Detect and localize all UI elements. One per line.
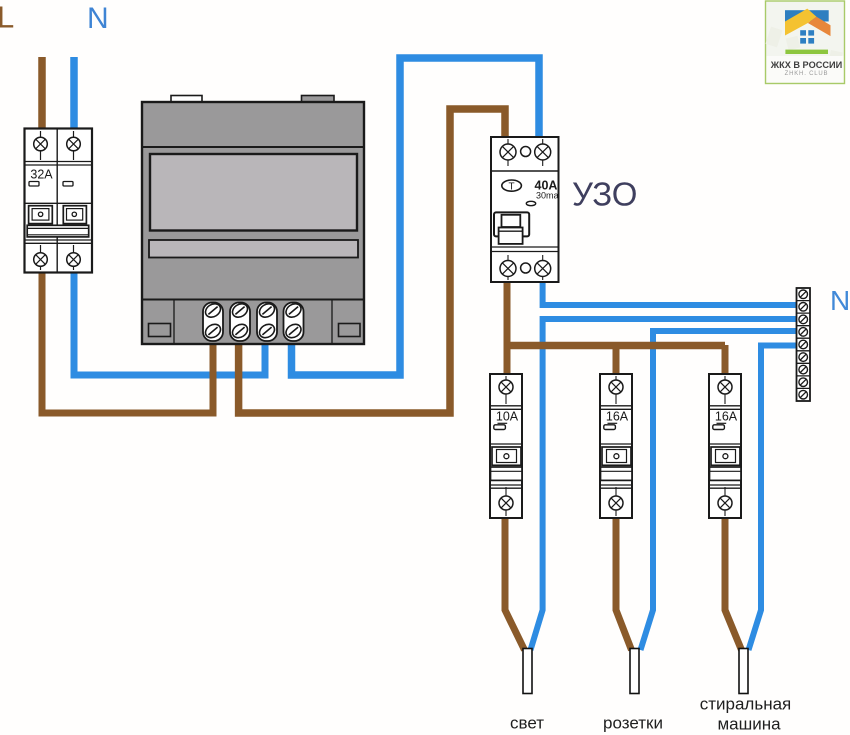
- terminal screw QF1 top-right: [67, 131, 81, 160]
- meter body: [142, 102, 364, 344]
- svg-text:30ma: 30ma: [536, 191, 559, 201]
- meter corner block right: [339, 324, 361, 337]
- meter terminal column 3: [257, 301, 277, 341]
- wire L drop to breaker SF3: [722, 345, 729, 375]
- svg-text:ЖКХ В РОССИИ: ЖКХ В РОССИИ: [770, 60, 842, 70]
- wire N from RCD bottom to N bus: [543, 280, 797, 305]
- wire L breaker SF3 output to cable 3: [725, 517, 742, 650]
- indicator window SF3: [717, 422, 727, 424]
- bus terminal screw 6: [799, 353, 808, 362]
- vent circle top: [521, 147, 531, 157]
- wire L distribution rail: [504, 342, 726, 350]
- terminal screw QF1 top-left: [34, 131, 48, 160]
- bus terminal screw 2: [799, 303, 808, 312]
- bus terminal screw 1: [799, 290, 808, 299]
- svg-text:свет: свет: [510, 714, 544, 733]
- meter terminal column 2: [230, 301, 250, 341]
- svg-text:32A: 32A: [30, 168, 53, 182]
- terminal screw SF2 bottom: [609, 487, 623, 516]
- terminal screw RCD bottom-right: [535, 255, 551, 280]
- toggle SF1: [492, 447, 521, 465]
- logo house roof orange band: [808, 17, 831, 36]
- toggle left pole: [29, 206, 53, 224]
- svg-text:ZHKH. CLUB: ZHKH. CLUB: [785, 71, 829, 77]
- test button oval with T: [502, 180, 522, 192]
- bus terminal screw 5: [799, 340, 808, 349]
- svg-text:16A: 16A: [606, 410, 629, 424]
- wire L RCD output down to breaker SF1: [504, 280, 511, 375]
- N bus bar: [797, 288, 811, 401]
- wire N bus to circuit 2 (sockets): [641, 331, 798, 650]
- small indicator ellipse: [526, 201, 535, 205]
- terminal screw RCD bottom-left: [500, 255, 516, 280]
- wire N feed from supply: [70, 57, 78, 131]
- wire L breaker SF2 output to cable 2: [616, 517, 632, 650]
- terminal screw SF1 top: [499, 376, 513, 404]
- terminal screw RCD top-left: [500, 139, 516, 166]
- terminal screw QF1 bottom-left: [34, 245, 48, 270]
- svg-text:N: N: [87, 2, 109, 35]
- indicator window left pole: [29, 182, 39, 187]
- cable to washing machine load: [739, 649, 748, 694]
- meter corner block left: [149, 324, 171, 337]
- wire N bus to circuit 3 (washer): [749, 346, 798, 651]
- svg-text:T: T: [509, 181, 515, 192]
- toggle right pole: [63, 206, 86, 224]
- svg-text:розетки: розетки: [603, 714, 663, 733]
- wire L breaker SF1 output to cable 1: [505, 517, 525, 650]
- handle bar SF3: [710, 467, 742, 480]
- handle bar SF1: [491, 467, 523, 480]
- terminal screw SF1 bottom: [499, 487, 513, 516]
- meter name strip: [149, 240, 358, 258]
- svg-text:16A: 16A: [715, 410, 738, 424]
- handle bar SF2: [601, 467, 633, 480]
- cable to light load: [523, 649, 532, 694]
- bus terminal screw 9: [799, 390, 808, 399]
- RCD QD1 40A 30ma: [491, 137, 559, 282]
- bus terminal screw 3: [799, 315, 808, 324]
- svg-text:N: N: [830, 285, 850, 316]
- WIRES-BROWN: [42, 57, 742, 650]
- wire N from breaker QF1 to meter terminal 3: [74, 268, 265, 375]
- logo house roof blue band: [785, 10, 829, 21]
- breaker SF1 10A single-pole: [490, 374, 522, 518]
- handle tie bar: [27, 225, 88, 237]
- cable to sockets load: [630, 649, 639, 694]
- terminal screw SF2 top: [609, 376, 623, 404]
- terminal screw RCD top-right: [535, 139, 551, 166]
- svg-text:L: L: [0, 0, 14, 35]
- breaker SF3 16A single-pole: [709, 374, 741, 518]
- bus terminal screw 4: [799, 328, 808, 337]
- RCD toggle handle: [494, 212, 529, 244]
- logo house window: [800, 30, 814, 43]
- meter terminal column 4: [283, 301, 303, 341]
- terminal screw QF1 bottom-right: [67, 245, 81, 270]
- WIRES-BLUE: [74, 57, 797, 650]
- logo house base green bar: [785, 50, 828, 54]
- svg-text:стиральная: стиральная: [700, 695, 792, 714]
- wire L drop to breaker SF2: [613, 345, 620, 375]
- meter display screen: [150, 154, 357, 231]
- svg-text:10A: 10A: [496, 410, 519, 424]
- breaker SF2 16A single-pole: [600, 374, 632, 518]
- terminal screw SF3 bottom: [718, 487, 732, 516]
- indicator window right pole: [63, 182, 73, 187]
- wire L from meter terminal 2 to RCD top-left: [239, 109, 505, 413]
- wire L feed from supply: [38, 57, 46, 131]
- logo box ЖКХ В РОССИИ: [766, 1, 845, 84]
- logo house roof yellow chevron: [785, 9, 817, 36]
- breaker QF1 32A two-pole: [25, 129, 93, 273]
- bus terminal screw 7: [799, 365, 808, 374]
- wire N bus to circuit 1 (light): [531, 319, 798, 650]
- meter terminal column 1: [203, 301, 223, 341]
- bus terminal screw 8: [799, 378, 808, 387]
- indicator window SF1: [498, 422, 508, 424]
- svg-text:машина: машина: [717, 715, 781, 734]
- CABLES: [523, 649, 748, 694]
- meter mounting tab right: [302, 96, 335, 103]
- electric meter PU1: [142, 96, 364, 345]
- svg-text:УЗО: УЗО: [572, 176, 637, 213]
- vent circle bottom: [521, 263, 531, 273]
- terminal screw SF3 top: [718, 376, 732, 404]
- toggle SF3: [711, 447, 740, 465]
- meter mounting tab left: [171, 96, 202, 103]
- indicator window SF2: [608, 422, 618, 424]
- toggle SF2: [602, 447, 631, 465]
- wire L from breaker QF1 to meter terminal 1: [42, 268, 213, 413]
- wire N from meter terminal 4 to RCD top-right: [292, 58, 540, 375]
